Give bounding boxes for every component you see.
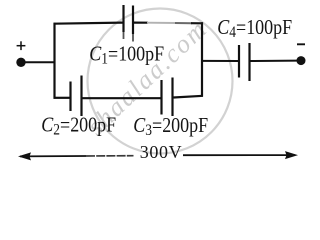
node - terminal dot: [297, 56, 306, 65]
minus sign: [297, 43, 305, 45]
svg-text:C4=100pF: C4=100pF: [217, 17, 292, 41]
plus sign: [17, 41, 26, 50]
svg-text:C2=200pF: C2=200pF: [41, 114, 116, 138]
300V dimension arrow left segment: [20, 155, 86, 157]
300V dimension arrow right segment: [183, 154, 295, 156]
watermark circle: [88, 9, 233, 154]
wire left bar: [53, 23, 55, 99]
wire bottom rail mid: [83, 97, 161, 99]
capacitor C1: [124, 5, 134, 34]
wire from + to left bar: [24, 61, 56, 63]
wire top rail left: [54, 23, 123, 24]
capacitor C2: [71, 76, 82, 117]
wire bottom rail right: [174, 96, 204, 98]
capacitor C3: [162, 78, 173, 117]
right arrowhead: [285, 151, 298, 159]
svg-text:C3=200pF: C3=200pF: [133, 115, 208, 139]
wire top rail right: [134, 22, 148, 24]
wire bottom rail left: [54, 97, 70, 99]
left arrowhead: [18, 152, 31, 160]
svg-text:300V: 300V: [140, 142, 182, 162]
wire right bar to C4: [202, 60, 238, 62]
node + terminal dot: [16, 58, 25, 67]
svg-text:C1=100pF: C1=100pF: [89, 43, 164, 67]
capacitor C4: [239, 43, 250, 81]
wire right bar: [201, 22, 203, 96]
wire C4 to minus dot: [251, 60, 299, 62]
